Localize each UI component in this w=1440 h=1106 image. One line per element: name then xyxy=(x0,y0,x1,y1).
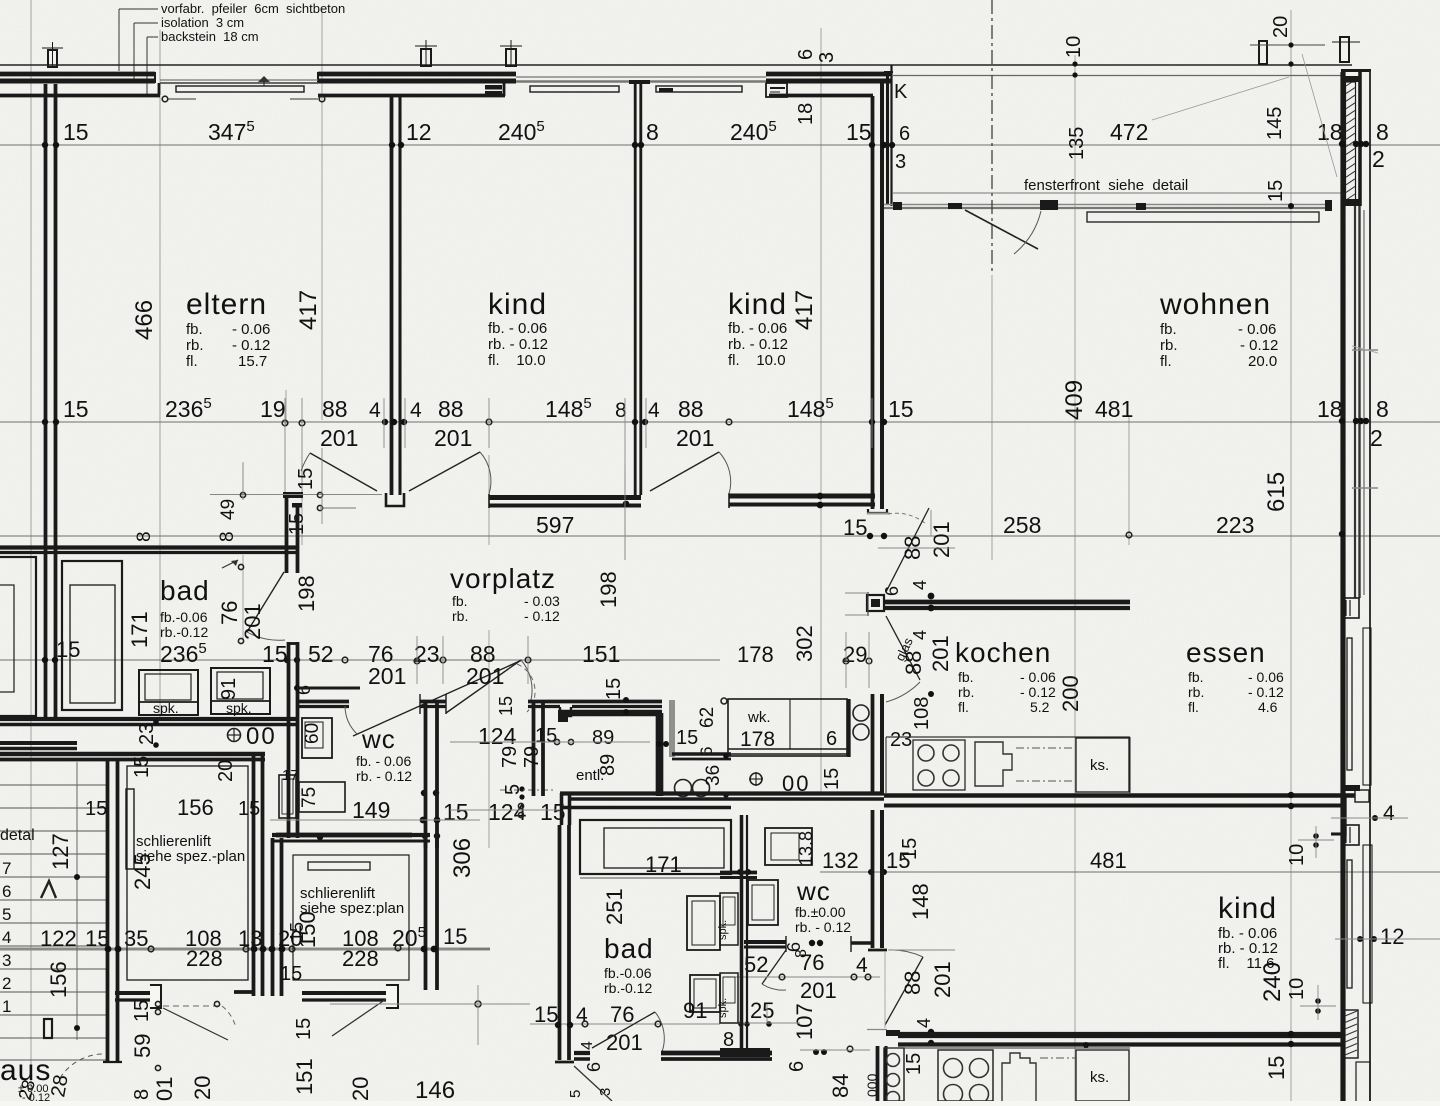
wall corner step right x1345 xyxy=(1343,795,1346,836)
svg-text:fensterfront siehe detail: fensterfront siehe detail xyxy=(1024,177,1188,194)
svg-text:15: 15 xyxy=(85,798,107,820)
svg-text:fb. - 0.06: fb. - 0.06 xyxy=(488,320,547,337)
wc bottom wall y939-948 with 68 door xyxy=(744,940,786,944)
svg-text:- 0.06: - 0.06 xyxy=(1248,669,1284,685)
svg-text:198: 198 xyxy=(294,575,319,612)
svg-text:251: 251 xyxy=(602,888,627,925)
svg-text:417: 417 xyxy=(295,290,322,330)
bathtub bad xyxy=(62,561,122,710)
svg-text:245: 245 xyxy=(130,853,155,890)
dots y949 xyxy=(105,946,112,953)
svg-text:backstein 18 cm: backstein 18 cm xyxy=(161,29,259,44)
svg-text:rb.: rb. xyxy=(186,337,204,354)
wc toilet xyxy=(279,775,296,818)
svg-text:15: 15 xyxy=(63,119,89,145)
corridor wall band y717-725 x0-299 xyxy=(0,717,299,721)
svg-text:4.6: 4.6 xyxy=(1258,699,1278,715)
right wall jamb block y598-618 xyxy=(1342,598,1359,618)
svg-text:258: 258 xyxy=(1003,512,1041,538)
lift1 door dashed swing xyxy=(163,1005,222,1007)
lift1 bottom wall y990-1002 xyxy=(115,991,150,995)
shower/sink fixture upper right xyxy=(687,896,720,950)
svg-text:88: 88 xyxy=(322,396,348,422)
kind1 bottom wall x489-641 xyxy=(489,495,641,500)
svg-text:3: 3 xyxy=(816,52,838,63)
svg-text:171: 171 xyxy=(645,852,682,877)
svg-text:fb. - 0.06: fb. - 0.06 xyxy=(728,320,787,337)
witness ticks y660 xyxy=(416,636,418,684)
svg-text:481: 481 xyxy=(1090,848,1127,873)
svg-text:- 0.06: - 0.06 xyxy=(1238,321,1276,338)
svg-text:145: 145 xyxy=(1264,107,1286,140)
svg-text:18: 18 xyxy=(1317,396,1343,422)
svg-text:59: 59 xyxy=(130,1034,155,1058)
svg-text:2: 2 xyxy=(2,974,11,993)
svg-text:rb.: rb. xyxy=(1188,684,1204,700)
svg-text:597: 597 xyxy=(536,512,574,538)
svg-text:wc: wc xyxy=(796,876,831,906)
svg-text:- 0.12: - 0.12 xyxy=(1248,684,1284,700)
wall divider eltern/kind x390-402 xyxy=(390,96,394,495)
svg-text:8: 8 xyxy=(217,531,238,542)
svg-text:23: 23 xyxy=(890,729,912,751)
dots under dim 10 top xyxy=(1072,61,1077,66)
svg-text:15: 15 xyxy=(843,515,867,540)
top exterior wall outer skin line xyxy=(0,64,1352,66)
svg-text:rb.-0.12: rb.-0.12 xyxy=(160,624,208,640)
svg-text:ks.: ks. xyxy=(1090,1069,1109,1086)
reduit notch xyxy=(558,710,568,722)
svg-text:146: 146 xyxy=(415,1077,455,1101)
svg-text:201: 201 xyxy=(434,425,472,451)
svg-text:00: 00 xyxy=(246,723,277,750)
window band 1 glazing x160-318 xyxy=(160,79,318,81)
svg-text:spk.: spk. xyxy=(153,700,179,716)
svg-text:bad: bad xyxy=(160,575,210,606)
svg-text:149: 149 xyxy=(352,797,390,823)
step wall x286-298 (vorplatz/bad left) xyxy=(285,497,289,573)
svg-text:15: 15 xyxy=(295,468,317,490)
svg-text:rb. - 0.12: rb. - 0.12 xyxy=(488,336,548,353)
kind door leaf (bottom kind room) xyxy=(885,957,923,1025)
svg-text:89: 89 xyxy=(592,727,614,749)
vertical wall x560-571 (left of lower bad) xyxy=(560,793,564,825)
stove 2 with burners xyxy=(938,1050,993,1101)
svg-text:198: 198 xyxy=(596,571,621,608)
svg-text:15: 15 xyxy=(534,1002,558,1027)
svg-text:23: 23 xyxy=(136,723,158,745)
svg-text:fb.-0.06: fb.-0.06 xyxy=(604,965,652,981)
svg-text:- 0.03: - 0.03 xyxy=(524,593,560,609)
bathtub (lower bad) xyxy=(580,820,731,874)
svg-text:5.2: 5.2 xyxy=(1030,699,1050,715)
dashed counter edge kitchen2 xyxy=(1040,1057,1075,1059)
window band 2 glazing x516-766 xyxy=(516,76,766,78)
lower bad left wall x558-571 xyxy=(558,825,562,1060)
svg-text:88: 88 xyxy=(900,971,925,995)
stove box with 4 burners xyxy=(913,740,965,790)
lower bad left wall end cap xyxy=(555,1061,574,1064)
svg-text:135: 135 xyxy=(1066,127,1088,160)
svg-text:8: 8 xyxy=(1376,396,1389,422)
terrace edge line xyxy=(893,192,1341,194)
svg-text:5: 5 xyxy=(567,1090,584,1098)
door kind2 swing arc xyxy=(719,452,731,494)
svg-text:15: 15 xyxy=(676,727,698,749)
svg-text:fl.: fl. xyxy=(186,353,198,370)
window jamb circle right xyxy=(319,96,325,102)
svg-text:76: 76 xyxy=(217,601,242,625)
kochen door swing arc xyxy=(886,682,920,702)
lift room 1 right wall x252-264 xyxy=(252,754,256,996)
main wall y793-807 kochen/essen south x884-1345 xyxy=(884,793,1355,797)
chimney pillar at x421 xyxy=(421,49,431,66)
corridor wall band B y806-814 x560-731 xyxy=(560,806,731,810)
svg-text:vorplatz: vorplatz xyxy=(450,563,556,594)
svg-text:eltern: eltern xyxy=(186,288,267,321)
svg-text:fb.: fb. xyxy=(958,669,974,685)
kochen top wall y600-610 x884-1130 xyxy=(884,600,1130,605)
svg-text:201: 201 xyxy=(928,635,953,672)
svg-text:- 0.06: - 0.06 xyxy=(1020,669,1056,685)
svg-text:6: 6 xyxy=(795,49,817,60)
svg-text:15: 15 xyxy=(821,768,843,790)
svg-text:472: 472 xyxy=(1110,119,1148,145)
right wall jamb block y825-845 xyxy=(1342,825,1359,845)
svg-text:76: 76 xyxy=(800,950,824,975)
lift room 2 inner outline xyxy=(293,855,409,980)
counter dash-dot edges xyxy=(1016,747,1075,749)
svg-text:01: 01 xyxy=(152,1077,177,1101)
fridge ks. box xyxy=(1076,738,1129,792)
kitchen2 sink unit xyxy=(1002,1053,1036,1101)
right wall sill bar y845-1003 xyxy=(1363,845,1372,1003)
corner wall K outer x887-893 xyxy=(886,72,889,205)
lift2 bottom wall xyxy=(302,991,386,995)
door kind1 swing arc xyxy=(480,452,491,494)
kind2 wall end foot xyxy=(868,509,887,513)
svg-text:- 0.06: - 0.06 xyxy=(232,321,270,338)
right wall tick y348 xyxy=(1352,349,1378,351)
lift room 2 left wall x271-283 xyxy=(271,838,275,996)
svg-text:10: 10 xyxy=(1286,844,1308,866)
svg-text:wohnen: wohnen xyxy=(1159,288,1271,321)
svg-text:6: 6 xyxy=(882,586,902,596)
right wall inner main line xyxy=(1340,72,1345,1101)
sink fixture lower right xyxy=(690,975,720,1012)
svg-text:88: 88 xyxy=(678,396,704,422)
svg-text:4: 4 xyxy=(910,630,930,640)
reduit (entl.) top band y710-716 xyxy=(558,710,662,716)
vertical wall x531-545 (left of reduit) xyxy=(532,700,536,796)
wc door leaf xyxy=(762,950,786,984)
small circles at door 15 xyxy=(317,492,322,497)
wall piece above wc x287-299 corner xyxy=(287,642,299,645)
top wall inner face right xyxy=(769,94,873,98)
fensterfront mullion ticks xyxy=(893,202,902,210)
svg-text:essen: essen xyxy=(1186,637,1266,668)
newel rectangle xyxy=(44,1019,52,1038)
svg-text:17: 17 xyxy=(282,767,299,784)
stair dots xyxy=(74,874,80,880)
svg-text:rb. - 0.12: rb. - 0.12 xyxy=(728,336,788,353)
svg-text:15: 15 xyxy=(280,963,302,985)
wc door swing arc left xyxy=(345,706,357,734)
wc right wall x871-884 y810-948 xyxy=(871,810,875,948)
svg-text:fb.: fb. xyxy=(1188,669,1204,685)
svg-text:15: 15 xyxy=(846,119,872,145)
dots near corner xyxy=(519,786,524,791)
fensterfront glazing lines xyxy=(884,204,1332,206)
thin head line y494 and y508 xyxy=(210,494,382,496)
door eltern swing arc xyxy=(301,453,310,471)
door kind2 leaf xyxy=(650,452,719,491)
right wall tick y488 xyxy=(1352,487,1378,489)
wall kind right x871-884 (15cm) xyxy=(871,96,875,509)
dots on y536 line xyxy=(867,533,873,539)
svg-text:fb.: fb. xyxy=(452,593,468,609)
svg-text:rb.: rb. xyxy=(452,608,468,624)
svg-text:ks.: ks. xyxy=(1090,757,1109,774)
witness vertical for 597 xyxy=(624,465,626,560)
bad door swing arc xyxy=(247,632,285,640)
wc right wall x424-441 xyxy=(424,702,428,848)
svg-text:15: 15 xyxy=(888,396,914,422)
dots on dim line y145 xyxy=(42,142,48,148)
svg-text:10: 10 xyxy=(1286,978,1308,1000)
svg-text:00: 00 xyxy=(782,771,810,796)
door eltern leaf xyxy=(310,453,377,491)
lower bad bottom walls y1052-1060 xyxy=(574,1051,590,1055)
svg-text:- 0.12: - 0.12 xyxy=(1020,684,1056,700)
svg-text:84: 84 xyxy=(828,1074,853,1098)
svg-text:kochen: kochen xyxy=(955,637,1051,668)
svg-text:201: 201 xyxy=(368,663,406,689)
entrance door dashed arc xyxy=(60,1054,106,1078)
svg-text:000: 000 xyxy=(864,1073,880,1097)
lower bad door leaf xyxy=(592,1012,655,1048)
door 88 leaf (into reduit) xyxy=(446,660,521,713)
svg-text:76: 76 xyxy=(610,1002,634,1027)
wall segment x420-446 y700-707 xyxy=(420,700,446,704)
small sash at x720-742 inner tick xyxy=(659,88,673,92)
wardrobe right wall thick xyxy=(847,699,850,757)
svg-text:178: 178 xyxy=(737,642,774,667)
wardrobe wk.178 box xyxy=(728,699,847,756)
corridor wall band A y791-800 x560-884 xyxy=(560,791,884,795)
svg-text:kind: kind xyxy=(728,288,787,321)
svg-text:fl.: fl. xyxy=(1188,699,1199,715)
window 1 sash rectangle xyxy=(176,86,304,92)
right wall window pane y638-770 xyxy=(1347,638,1352,770)
svg-text:466: 466 xyxy=(131,300,158,340)
svg-text:228: 228 xyxy=(186,946,223,971)
svg-text:3: 3 xyxy=(895,151,906,173)
balcony door swing arc xyxy=(1014,211,1041,254)
notch at x559-572 xyxy=(560,707,571,716)
svg-text:6: 6 xyxy=(2,882,11,901)
pier block with arrow at x766-787 xyxy=(766,83,787,97)
svg-text:15: 15 xyxy=(899,838,921,860)
svg-text:13: 13 xyxy=(238,926,262,951)
right wall window pane y860-988 xyxy=(1347,860,1352,988)
svg-text:15: 15 xyxy=(131,1000,153,1022)
svg-text:20: 20 xyxy=(348,1077,373,1101)
svg-text:6: 6 xyxy=(899,123,910,145)
chimney pillar at x506 xyxy=(506,49,516,66)
svg-text:122: 122 xyxy=(40,926,77,951)
svg-text:148: 148 xyxy=(908,883,933,920)
kochen door leaf (glas) xyxy=(886,616,920,680)
apartment door dashed arc right xyxy=(517,664,535,712)
svg-text:15: 15 xyxy=(131,756,153,778)
svg-text:fl. 10.0: fl. 10.0 xyxy=(728,352,786,369)
leader lines for annotations xyxy=(118,9,120,71)
bad door leaf xyxy=(247,572,284,632)
balcony door leaf from bad xyxy=(574,1066,612,1101)
svg-text:fl. 10.0: fl. 10.0 xyxy=(488,352,546,369)
chimney pillar at x1340 xyxy=(1340,37,1349,62)
right wall sill bar y628-785 xyxy=(1363,628,1371,785)
svg-text:178: 178 xyxy=(740,728,775,751)
lift1 bottom wall right piece xyxy=(234,990,254,994)
small arrow near bad door xyxy=(222,560,238,568)
svg-text:8: 8 xyxy=(723,1029,734,1051)
lift room 1 inner outline xyxy=(127,766,248,980)
lift room 2 top wall y832-840 xyxy=(272,833,430,837)
svg-text:spk.: spk. xyxy=(717,920,729,940)
door kind1 leaf xyxy=(409,452,480,491)
svg-text:240: 240 xyxy=(1259,962,1286,1002)
svg-text:2: 2 xyxy=(1372,146,1385,172)
dots on y660 dim line xyxy=(42,657,48,663)
wc door leaf long diagonal xyxy=(353,660,522,736)
dash-dot segment y790 xyxy=(500,789,554,791)
wc fixture 60 (washbasin) xyxy=(302,718,332,758)
open circle and line y1004 xyxy=(475,1001,481,1007)
svg-text:15.7: 15.7 xyxy=(238,353,267,370)
svg-text:124: 124 xyxy=(478,723,517,749)
svg-text:19: 19 xyxy=(260,396,286,422)
fridge ks. 2 xyxy=(1076,1050,1129,1101)
svg-text:5: 5 xyxy=(2,905,11,924)
wall band y752-760 x672-731 xyxy=(672,752,731,756)
lift room 1 top wall y752-760 x107-265 xyxy=(0,752,265,756)
svg-text:201: 201 xyxy=(320,425,358,451)
stair walk line with arrow xyxy=(76,762,78,1040)
svg-text:6: 6 xyxy=(584,1062,604,1072)
svg-text:201: 201 xyxy=(240,603,265,640)
right wall outer face pier line xyxy=(1358,72,1362,206)
svg-text:13.8: 13.8 xyxy=(796,831,816,866)
svg-text:60: 60 xyxy=(302,723,323,744)
svg-text:89: 89 xyxy=(597,754,619,776)
svg-text:8: 8 xyxy=(131,1089,153,1100)
window jamb circle left xyxy=(162,96,168,102)
svg-text:15: 15 xyxy=(63,396,89,422)
spuelkasten sink 1 (bad) xyxy=(139,670,198,715)
kochen left wall x871-884 below door xyxy=(871,694,875,795)
top wall solid segment left x0-155 xyxy=(0,72,155,77)
svg-text:15: 15 xyxy=(238,798,260,820)
right wall black cap blocks xyxy=(1341,76,1361,82)
svg-text:rb. - 0.12: rb. - 0.12 xyxy=(356,768,412,784)
wc door arc xyxy=(762,984,786,990)
door arc at kind2 wall foot (passage above kochen pier) xyxy=(888,513,926,524)
svg-text:15: 15 xyxy=(293,1018,315,1040)
svg-text:6: 6 xyxy=(786,1061,808,1072)
kind2 bottom wall x729-875 xyxy=(729,494,875,499)
left exterior wall lower x44-57 xyxy=(44,546,48,719)
svg-text:8: 8 xyxy=(646,119,659,145)
svg-text:wk.: wk. xyxy=(747,709,771,726)
kind bottom wall y1032-1044 x884-1345 xyxy=(898,1032,1345,1038)
svg-text:52: 52 xyxy=(308,641,334,667)
right wall hatched block y1010-1058 xyxy=(1344,1010,1358,1058)
svg-text:15: 15 xyxy=(56,637,80,662)
svg-text:4: 4 xyxy=(1383,802,1395,825)
svg-text:15: 15 xyxy=(903,1053,925,1075)
step wall top cap at x283-302 xyxy=(283,492,303,498)
faint horizontal witness lines xyxy=(0,144,1440,146)
svg-text:20: 20 xyxy=(215,760,237,782)
svg-text:10: 10 xyxy=(1063,36,1085,58)
window 1 centre tick xyxy=(263,77,265,86)
svg-text:4: 4 xyxy=(910,580,930,590)
lower bad door arc xyxy=(655,1012,664,1052)
svg-text:4: 4 xyxy=(579,1041,596,1050)
window 2 sash rectangle b xyxy=(656,86,742,92)
svg-text:15: 15 xyxy=(496,696,516,716)
kitchen2 counter line xyxy=(884,1047,1130,1049)
dots y949 lift2 xyxy=(289,946,295,952)
svg-text:kind: kind xyxy=(488,288,547,321)
tall door slot rectangle left xyxy=(126,789,134,869)
svg-text:fb. - 0.06: fb. - 0.06 xyxy=(356,753,411,769)
svg-text:35: 35 xyxy=(124,926,148,951)
svg-text:88: 88 xyxy=(901,651,926,675)
svg-text:rb.-0.12: rb.-0.12 xyxy=(604,980,652,996)
svg-text:K: K xyxy=(894,81,908,103)
svg-text:7: 7 xyxy=(2,859,11,878)
top wall solid segment right x766-893 xyxy=(766,72,891,77)
svg-text:306: 306 xyxy=(449,838,476,878)
svg-text:fb.±0.00: fb.±0.00 xyxy=(795,904,846,920)
svg-text:201: 201 xyxy=(606,1030,643,1055)
toilet (wc right) xyxy=(748,880,778,925)
svg-text:302: 302 xyxy=(792,625,817,662)
right wall outer skin xyxy=(1369,70,1371,1101)
svg-text:rb.: rb. xyxy=(1160,337,1178,354)
svg-text:6: 6 xyxy=(826,728,837,750)
svg-text:5: 5 xyxy=(502,784,524,795)
svg-text:201: 201 xyxy=(930,961,955,998)
svg-text:3: 3 xyxy=(597,1088,614,1096)
centre axis dash-dot line xyxy=(991,0,993,275)
vent room 62 right gray wall xyxy=(669,700,675,757)
kochen top wall pier (black square) xyxy=(867,595,884,611)
svg-text:171: 171 xyxy=(127,611,152,648)
svg-text:15: 15 xyxy=(1265,180,1287,202)
svg-text:spk.: spk. xyxy=(717,998,729,1018)
passage door leaf xyxy=(886,508,929,592)
wall eltern left x44-57 xyxy=(44,84,48,546)
neighbour bathtub cut at left edge xyxy=(0,557,36,716)
svg-text:15: 15 xyxy=(1264,1056,1289,1080)
witness ticks around doors y422 xyxy=(383,398,385,448)
svg-text:12: 12 xyxy=(406,119,432,145)
svg-text:- 0.12: - 0.12 xyxy=(1240,337,1278,354)
